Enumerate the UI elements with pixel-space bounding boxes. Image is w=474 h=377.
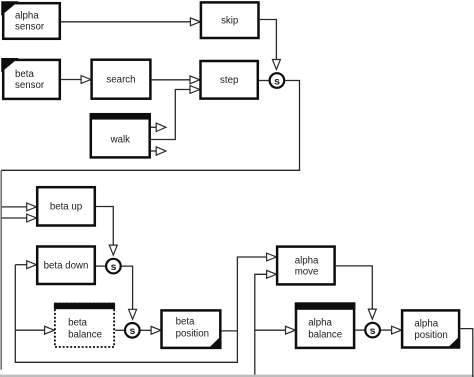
svg-text:beta: beta (176, 317, 195, 328)
svg-text:alpha: alpha (295, 256, 319, 267)
svg-text:search: search (106, 75, 135, 86)
svg-text:balance: balance (68, 329, 102, 340)
svg-text:walk: walk (110, 134, 131, 145)
svg-text:s: s (370, 325, 376, 337)
svg-text:position: position (414, 330, 447, 341)
svg-text:alpha: alpha (15, 11, 39, 22)
svg-text:beta: beta (15, 69, 34, 80)
svg-text:sensor: sensor (15, 22, 45, 33)
svg-text:beta: beta (68, 318, 87, 329)
svg-text:alpha: alpha (414, 318, 438, 329)
svg-text:skip: skip (221, 16, 238, 27)
svg-text:step: step (220, 75, 238, 86)
svg-text:position: position (176, 328, 209, 339)
svg-text:beta up: beta up (50, 202, 82, 213)
svg-text:balance: balance (308, 329, 342, 340)
svg-text:move: move (295, 267, 319, 278)
svg-text:beta down: beta down (44, 261, 89, 272)
svg-text:sensor: sensor (15, 80, 45, 91)
svg-text:s: s (111, 261, 117, 273)
svg-text:s: s (129, 325, 135, 337)
svg-text:alpha: alpha (308, 318, 332, 329)
svg-text:s: s (274, 75, 280, 87)
